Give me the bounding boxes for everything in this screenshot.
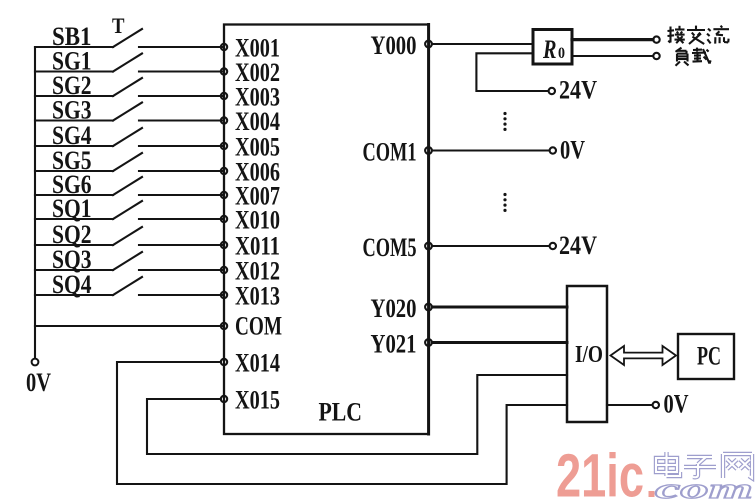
wire Ro branch to 24V xyxy=(476,53,548,91)
wire Ro to load terminal xyxy=(572,55,653,57)
terminal 0V bottom-right xyxy=(653,402,659,408)
svg-text:X015: X015 xyxy=(235,386,280,415)
pin Y020 xyxy=(371,294,432,323)
svg-text:Y000: Y000 xyxy=(371,31,417,60)
wire double arrow I/O to PC xyxy=(611,346,677,365)
svg-text:T: T xyxy=(112,13,125,38)
logo dot xyxy=(649,491,655,497)
label 接交流 xyxy=(668,26,730,44)
pin Y021 xyxy=(371,330,432,359)
svg-text:24V: 24V xyxy=(559,76,597,105)
switch SG4 xyxy=(35,121,224,150)
wire Ro to AC terminal xyxy=(572,38,653,41)
svg-text:COM1: COM1 xyxy=(363,138,417,167)
pin Y000 xyxy=(371,31,432,60)
switch SG5 xyxy=(35,146,224,175)
wire COM5 to 24V xyxy=(432,245,549,247)
PLC U1 box xyxy=(224,25,429,435)
terminal 0V bottom-left xyxy=(32,359,39,366)
pin X010 xyxy=(221,206,280,235)
terminal 接交流 xyxy=(653,36,659,42)
switch SB1 xyxy=(35,22,224,51)
wire COM1 to 0V xyxy=(432,149,549,151)
terminal 0V mid xyxy=(550,147,556,153)
svg-text:I/O: I/O xyxy=(575,342,603,368)
wire X014 loop xyxy=(117,362,567,484)
pin X014 xyxy=(221,349,280,378)
pin X013 xyxy=(221,282,280,311)
resistor Ro xyxy=(533,30,572,65)
svg-text:0V: 0V xyxy=(664,390,689,419)
svg-text:Y020: Y020 xyxy=(371,294,417,323)
svg-text:PC: PC xyxy=(697,342,721,371)
terminal 负载 xyxy=(653,53,659,59)
wire X015 loop xyxy=(147,375,567,454)
switch SQ4 xyxy=(35,270,224,299)
pin X007 xyxy=(221,182,280,211)
node ellipsis lower xyxy=(503,193,506,212)
pin X002 xyxy=(221,58,280,87)
switch SG1 xyxy=(35,47,224,76)
label 负载 xyxy=(676,48,711,66)
pin X012 xyxy=(221,257,280,286)
switch SG3 xyxy=(35,96,224,125)
wire I/O to 0V terminal xyxy=(607,404,652,406)
svg-text:COM: COM xyxy=(235,312,282,341)
svg-text:X013: X013 xyxy=(235,282,280,311)
pin X011 xyxy=(221,232,280,261)
svg-text:SQ4: SQ4 xyxy=(52,270,92,299)
wire Y020 to I/O xyxy=(432,306,567,309)
wire Y000 to Ro xyxy=(432,43,533,45)
node ellipsis upper xyxy=(503,112,506,131)
pin X003 xyxy=(221,83,280,112)
svg-text:21ic: 21ic xyxy=(556,442,644,501)
svg-text:Y021: Y021 xyxy=(371,330,417,359)
switch SQ3 xyxy=(35,245,224,274)
pin X001 xyxy=(221,34,280,63)
svg-text:0V: 0V xyxy=(560,136,585,165)
pin X006 xyxy=(221,158,280,187)
PC box xyxy=(678,334,734,379)
svg-text:0: 0 xyxy=(558,45,565,62)
wire Y021 to I/O xyxy=(432,341,567,344)
svg-text:24V: 24V xyxy=(559,231,597,260)
switch SG6 xyxy=(35,170,224,199)
pin X005 xyxy=(221,133,280,162)
logo 电子网 xyxy=(656,452,752,478)
svg-text:COM5: COM5 xyxy=(363,233,417,262)
pin COM5 xyxy=(363,233,432,262)
svg-text:0V: 0V xyxy=(26,368,51,397)
I/O interface box xyxy=(567,286,607,422)
svg-text:SQ1: SQ1 xyxy=(52,194,92,223)
switch SQ1 xyxy=(35,194,224,223)
svg-text:PLC: PLC xyxy=(319,398,363,427)
svg-text:R: R xyxy=(542,35,556,64)
pin X004 xyxy=(221,107,280,136)
pin X015 xyxy=(221,386,280,415)
switch SQ2 xyxy=(35,220,224,249)
terminal 24V top xyxy=(549,88,555,94)
pin COM xyxy=(221,312,282,341)
terminal 24V lower xyxy=(550,243,556,249)
svg-text:X014: X014 xyxy=(235,349,280,378)
wire COM input xyxy=(35,325,224,327)
wire left 0V bus xyxy=(34,47,36,358)
svg-text:X010: X010 xyxy=(235,206,280,235)
switch SG2 xyxy=(35,71,224,100)
pin COM1 xyxy=(363,138,432,167)
